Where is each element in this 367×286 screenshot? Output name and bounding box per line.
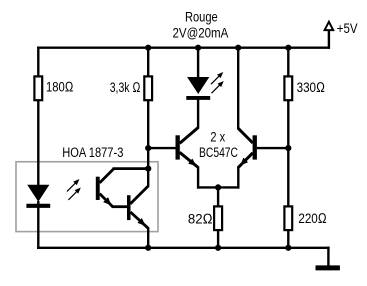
- wire 3.3k branch upper: [147, 47, 149, 77]
- svg-text:180Ω: 180Ω: [46, 80, 73, 96]
- LED D1 cathode bar: [186, 96, 210, 100]
- LED D1 light arrow 2: [212, 82, 223, 93]
- node bottom dot opto emitter: [145, 245, 151, 251]
- node base junction dot: [145, 145, 151, 151]
- node opto collector dot: [145, 166, 151, 172]
- resistor 220: [284, 206, 292, 230]
- wire Q2 emitter riser: [237, 166, 239, 188]
- opto T1 emitter: [100, 194, 113, 207]
- power symbol +5V arrow: [325, 22, 334, 30]
- transistor Q1 BC547C base bar: [176, 135, 180, 159]
- node bottom dot 220: [285, 245, 291, 251]
- transistor Q2 emitter arrow: [240, 158, 248, 166]
- node bottom dot 82: [215, 245, 221, 251]
- LED D1 light arrow 1: [211, 73, 222, 84]
- node rail dot Q2 collector: [235, 45, 241, 51]
- wire opto collector node to T2: [147, 169, 149, 188]
- resistor 180: [34, 76, 42, 100]
- wire left branch lower: [37, 201, 39, 249]
- svg-text:BC547C: BC547C: [199, 145, 238, 161]
- LED D2 cathode bar: [26, 204, 50, 208]
- wire LED D1 cathode to Q1 collector: [197, 100, 199, 129]
- opto T1 collector: [100, 169, 114, 183]
- opto T1 collector wire: [113, 167, 150, 170]
- transistor Q2 collector: [238, 128, 253, 143]
- opto T2 emitter arrow: [137, 218, 145, 226]
- opto phototransistor T2 base bar: [127, 195, 131, 220]
- wire 3.3k branch lower: [147, 101, 149, 170]
- transistor Q1 emitter arrow: [188, 159, 196, 166]
- wire emitter bus: [197, 186, 239, 188]
- wire ground riser: [327, 247, 329, 266]
- wire T1 emitter to T2 base: [112, 205, 128, 208]
- optocoupler box HOA1877-3: [16, 162, 158, 232]
- wire T2 emitter to rail: [147, 227, 149, 249]
- wire 220 branch lower: [287, 231, 289, 250]
- resistor 3.3k: [144, 76, 152, 100]
- svg-text:3,3k Ω: 3,3k Ω: [110, 80, 141, 96]
- resistor 82: [214, 206, 222, 230]
- opto light arrow 1: [67, 180, 78, 191]
- svg-text:+5V: +5V: [337, 21, 358, 36]
- node Q2 base junction dot: [285, 145, 291, 151]
- svg-text:330Ω: 330Ω: [297, 80, 325, 96]
- wire Q2 collector riser: [237, 47, 239, 130]
- opto T2 collector: [130, 186, 148, 204]
- wire LED D1 anode: [197, 47, 199, 79]
- transistor Q1 emitter: [180, 152, 199, 167]
- wire left branch upper: [37, 47, 39, 77]
- node rail dot LED: [195, 45, 201, 51]
- svg-text:Rouge: Rouge: [185, 9, 218, 25]
- svg-text:220Ω: 220Ω: [298, 211, 326, 227]
- transistor Q2 BC547C base bar: [253, 135, 257, 159]
- wire base Q1 BC547: [148, 147, 175, 149]
- node rail dot 3.3k: [145, 45, 151, 51]
- transistor Q1 collector: [180, 128, 199, 144]
- transistor Q2 emitter: [238, 153, 253, 168]
- wire Q2 base: [257, 147, 290, 149]
- svg-text:HOA 1877-3: HOA 1877-3: [62, 145, 123, 161]
- resistor 330: [284, 76, 292, 100]
- LED D1 Rouge triangle: [187, 77, 209, 94]
- wire 330-220 branch middle: [287, 101, 289, 206]
- wire Q1 emitter riser: [197, 167, 199, 189]
- wire left branch middle: [37, 101, 39, 185]
- wire top rail +5V: [37, 47, 329, 49]
- svg-text:2 x: 2 x: [210, 129, 225, 145]
- node emitter bus dot: [215, 184, 221, 190]
- wire +5V riser: [328, 30, 330, 49]
- wire 330 branch upper: [287, 47, 289, 77]
- wire 82 branch lower: [217, 231, 219, 250]
- wire bottom rail: [37, 247, 330, 249]
- svg-text:82Ω: 82Ω: [188, 212, 213, 228]
- LED D2 opto emitter triangle: [27, 185, 49, 202]
- node rail dot 330: [285, 45, 291, 51]
- svg-text:2V@20mA: 2V@20mA: [173, 26, 229, 42]
- ground: [316, 265, 340, 270]
- wire 82 riser: [217, 187, 219, 206]
- opto T2 emitter: [130, 212, 148, 228]
- opto T1 emitter arrow: [103, 197, 111, 205]
- opto phototransistor T1 base bar: [96, 177, 100, 200]
- opto light arrow 2: [68, 189, 79, 200]
